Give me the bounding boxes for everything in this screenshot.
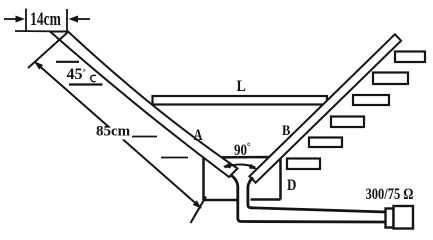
dimension 14cm: left tick: [25, 9, 27, 32]
rung R1: [395, 52, 425, 63]
dimension 14cm: right tick: [66, 9, 68, 31]
witness line (bottom of 85cm dimension): [191, 197, 207, 224]
rung R6: [287, 159, 320, 170]
dimension 14cm: baseline: [15, 30, 68, 33]
rung R2: [373, 73, 408, 85]
arrowhead 14cm left: [16, 16, 26, 23]
wire (left feed, lower twin-lead wire): [232, 176, 386, 223]
arrowhead 85cm bottom: [193, 200, 202, 208]
dash mark 1 (above 45): [56, 61, 79, 63]
svg-text:A: A: [194, 127, 204, 145]
dimension 14cm: left arrow line: [4, 18, 16, 20]
svg-text:14cm: 14cm: [30, 9, 61, 30]
arrowhead 90deg right: [249, 164, 257, 170]
dash mark 3 (right of 85cm): [132, 136, 157, 138]
rung R4: [331, 117, 364, 128]
bar L: [153, 96, 328, 105]
balun small rect: [386, 209, 394, 228]
dash mark 4 (lower hatch): [161, 157, 188, 159]
balun big rect: [394, 206, 414, 229]
arrowhead 85cm top: [34, 61, 43, 69]
svg-text:D: D: [287, 177, 296, 194]
curl (angle squiggle near 45): [91, 75, 96, 81]
svg-text:300/75 Ω: 300/75 Ω: [366, 186, 414, 204]
svg-text:B: B: [282, 122, 290, 138]
dash mark 2 (below 45): [69, 83, 103, 85]
rung R3: [353, 95, 389, 105]
arm A (left antenna rod): [50, 32, 238, 178]
wire (right feed, upper twin-lead wire): [248, 178, 386, 213]
arm B (right antenna rod): [249, 34, 401, 182]
text mask for 85cm: [95, 128, 131, 140]
dimension line 85cm: [36, 63, 202, 209]
arrowhead 90deg left: [223, 163, 231, 169]
arrowhead 14cm right: [69, 16, 79, 23]
box (feed-point box): [204, 157, 281, 200]
svg-text:85cm: 85cm: [96, 124, 131, 140]
90 degree arc: [225, 165, 256, 168]
svg-text:L: L: [237, 78, 246, 95]
witness line (top of 85cm dimension): [28, 33, 68, 69]
dimension 14cm: right arrow line: [78, 18, 90, 20]
rung R5: [309, 138, 342, 148]
